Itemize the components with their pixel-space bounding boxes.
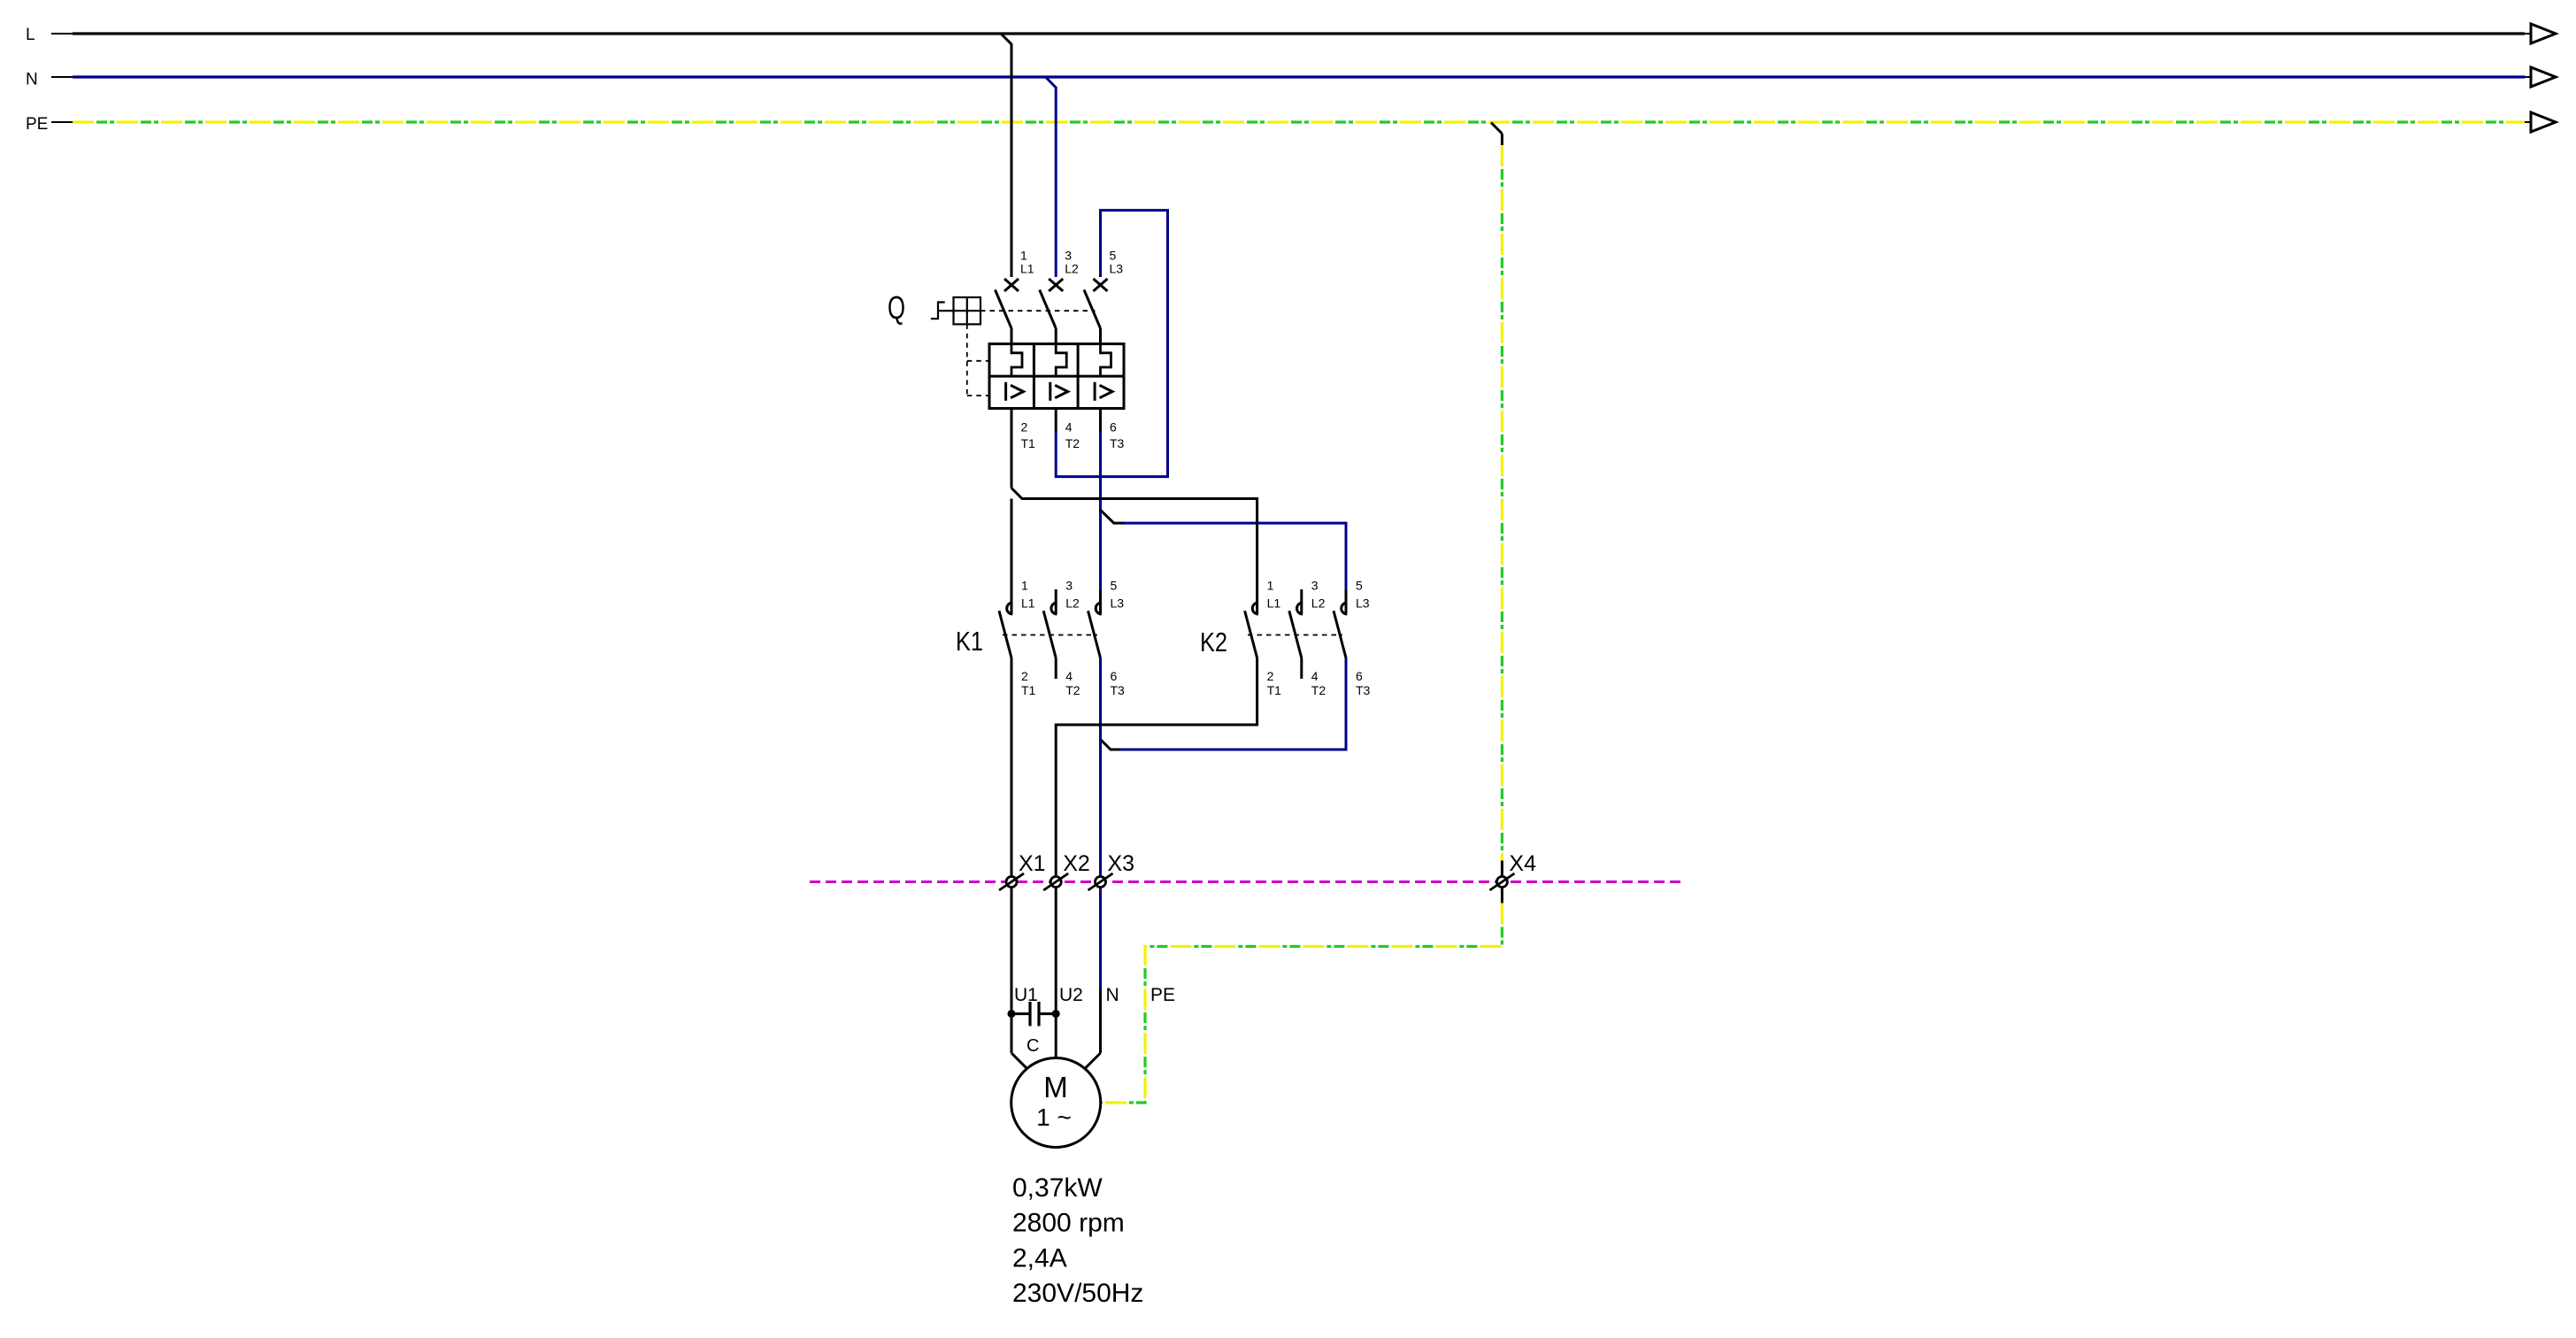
wire: K1 pole3 bottom to X3, with branch to K2 pole3 bottom xyxy=(1099,658,1102,877)
svg-text:3: 3 xyxy=(1065,249,1072,263)
svg-text:1 ~: 1 ~ xyxy=(1036,1103,1072,1131)
svg-text:1: 1 xyxy=(1267,579,1274,593)
breaker Q thermal/magnetic trip block xyxy=(989,344,1124,409)
svg-text:T3: T3 xyxy=(1110,436,1125,450)
svg-text:C: C xyxy=(1027,1036,1039,1056)
svg-text:L1: L1 xyxy=(1020,262,1034,276)
svg-text:U2: U2 xyxy=(1059,985,1083,1005)
svg-text:L: L xyxy=(26,26,35,44)
svg-text:T1: T1 xyxy=(1021,436,1036,450)
svg-text:1: 1 xyxy=(1021,579,1028,593)
breaker Q thermal element pole 3 xyxy=(1101,344,1111,377)
svg-text:T2: T2 xyxy=(1065,436,1080,450)
svg-text:X1: X1 xyxy=(1019,851,1046,876)
svg-text:2: 2 xyxy=(1267,669,1274,683)
breaker Q manual actuator xyxy=(931,303,945,319)
svg-text:L3: L3 xyxy=(1356,596,1370,611)
svg-text:5: 5 xyxy=(1356,579,1363,593)
breaker Q pole 3 contact xyxy=(1094,279,1108,291)
svg-text:T3: T3 xyxy=(1356,683,1371,697)
svg-text:1: 1 xyxy=(1020,249,1027,263)
svg-text:6: 6 xyxy=(1356,669,1363,683)
contactor K2 mechanism dashed link xyxy=(1248,634,1342,636)
svg-text:K1: K1 xyxy=(956,626,983,657)
svg-text:L2: L2 xyxy=(1065,596,1080,611)
contactor K2 pole 1 contact xyxy=(1252,603,1257,614)
svg-text:N: N xyxy=(26,71,38,89)
wire: PE drop from bus to X4 xyxy=(1491,123,1502,135)
terminal X2 xyxy=(1050,877,1061,888)
contactor K1 pole 1 contact xyxy=(1007,603,1013,614)
node N (neutral bus) xyxy=(51,76,73,78)
svg-text:6: 6 xyxy=(1111,669,1118,683)
wire: Q T2 to Q L3 loop xyxy=(1056,211,1167,477)
node L (phase bus) xyxy=(51,33,73,35)
svg-text:6: 6 xyxy=(1110,420,1117,434)
wire: K1 pole1 bottom to X1 xyxy=(1011,658,1013,877)
breaker Q pole 1 contact xyxy=(1004,279,1019,291)
svg-text:N: N xyxy=(1106,985,1119,1005)
wire: X1 to motor U1 xyxy=(1011,888,1013,1054)
contactor K2 pole 2 contact xyxy=(1297,603,1303,614)
svg-text:2800 rpm: 2800 rpm xyxy=(1012,1209,1125,1238)
svg-text:Q: Q xyxy=(888,289,905,326)
svg-text:5: 5 xyxy=(1110,249,1117,263)
wire: K2 pole1 bottom to X2 xyxy=(1056,658,1257,877)
terminal X1 xyxy=(1006,877,1017,888)
svg-text:2,4A: 2,4A xyxy=(1012,1243,1067,1273)
svg-text:X3: X3 xyxy=(1108,851,1135,876)
wire: motor N lead xyxy=(1099,989,1102,1054)
svg-text:L1: L1 xyxy=(1267,596,1281,611)
svg-text:T2: T2 xyxy=(1065,683,1080,697)
junction dot U1 xyxy=(1008,1010,1016,1018)
wire: Q T3 down to K1/K2 pole3 branch xyxy=(1099,432,1102,590)
wire: X2 to motor U2 xyxy=(1055,888,1057,1059)
breaker Q thermal element pole 1 xyxy=(1011,344,1022,377)
wire: PE from X4 to motor xyxy=(1501,888,1503,904)
svg-text:X4: X4 xyxy=(1509,851,1536,876)
breaker Q pole 2 contact xyxy=(1049,279,1063,291)
svg-text:3: 3 xyxy=(1065,579,1073,593)
contactor K2 pole 3 contact xyxy=(1342,603,1348,614)
breaker Q thermal element pole 2 xyxy=(1056,344,1066,377)
wire: N bus drop to Q pole 2 xyxy=(1046,77,1057,277)
svg-text:230V/50Hz: 230V/50Hz xyxy=(1012,1279,1143,1308)
wire: cabinet boundary (dashed magenta) xyxy=(810,880,1681,883)
breaker Q mechanism dashed links xyxy=(980,310,1096,311)
svg-text:L2: L2 xyxy=(1311,596,1326,611)
svg-text:T3: T3 xyxy=(1111,683,1126,697)
svg-text:U1: U1 xyxy=(1014,985,1038,1005)
svg-text:T1: T1 xyxy=(1021,683,1036,697)
capacitor C xyxy=(1011,1012,1030,1015)
svg-text:L1: L1 xyxy=(1021,596,1035,611)
breaker Q magnetic trip I> pole 2 xyxy=(1049,382,1051,401)
svg-text:2: 2 xyxy=(1021,669,1028,683)
contactor K1 mechanism dashed link xyxy=(1003,634,1097,636)
svg-text:T1: T1 xyxy=(1267,683,1282,697)
wire: Q T1 down, branch to K1 pole1 and K2 pole1 xyxy=(1011,409,1013,488)
svg-text:L3: L3 xyxy=(1110,262,1124,276)
svg-text:PE: PE xyxy=(1150,985,1175,1005)
svg-text:PE: PE xyxy=(26,115,48,134)
svg-text:4: 4 xyxy=(1065,669,1073,683)
svg-text:L3: L3 xyxy=(1111,596,1125,611)
svg-text:X2: X2 xyxy=(1063,851,1090,876)
svg-text:0,37kW: 0,37kW xyxy=(1012,1173,1103,1203)
svg-text:M: M xyxy=(1043,1071,1068,1103)
breaker Q magnetic trip I> pole 1 xyxy=(1004,382,1007,401)
svg-text:T2: T2 xyxy=(1311,683,1326,697)
svg-text:4: 4 xyxy=(1065,420,1073,434)
svg-text:K2: K2 xyxy=(1200,627,1227,657)
terminal X3 xyxy=(1096,877,1106,888)
wire: L bus drop to Q pole 1 xyxy=(1001,34,1011,277)
breaker Q magnetic trip I> pole 3 xyxy=(1094,382,1096,401)
contactor K1 pole 2 contact xyxy=(1051,603,1057,614)
wire: Q T3 black stub xyxy=(1099,409,1102,433)
contactor K1 pole 3 contact xyxy=(1096,603,1102,614)
terminal X4 xyxy=(1496,877,1507,888)
svg-text:5: 5 xyxy=(1111,579,1118,593)
svg-text:L2: L2 xyxy=(1065,262,1079,276)
motor M1 circle xyxy=(1011,1058,1101,1148)
svg-text:2: 2 xyxy=(1021,420,1028,434)
wire: Q T2 black stub xyxy=(1055,409,1057,433)
wire: X3 to motor N terminal xyxy=(1099,888,1102,989)
svg-text:3: 3 xyxy=(1311,579,1319,593)
node PE (protective earth bus) xyxy=(51,121,73,123)
junction dot U2 xyxy=(1052,1010,1060,1018)
svg-text:4: 4 xyxy=(1311,669,1319,683)
